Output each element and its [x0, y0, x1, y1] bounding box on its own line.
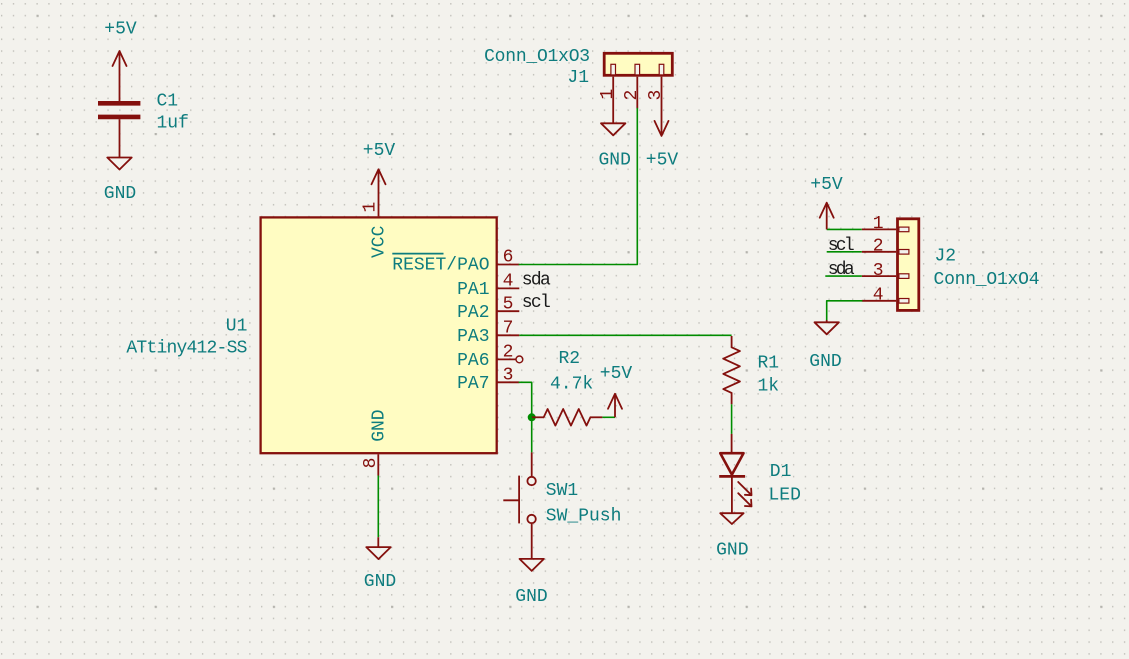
J2 pin 1 line — [862, 228, 896, 230]
pin name VCC — [370, 225, 390, 258]
svg-text:GND: GND — [370, 409, 390, 441]
wire U1 GND — [377, 476, 379, 538]
J1 pin 3 number — [646, 90, 666, 101]
label GND (J1) — [598, 151, 630, 171]
J2 pin 2 number — [873, 237, 884, 257]
svg-text:sda: sda — [828, 260, 855, 280]
svg-text:2: 2 — [503, 343, 514, 363]
ground (C1) — [107, 158, 131, 170]
label +5V (R2) — [600, 364, 633, 384]
J1 pin 1 number — [598, 89, 618, 100]
svg-text:Conn_O1xO3: Conn_O1xO3 — [484, 47, 590, 67]
label J2 — [935, 247, 957, 267]
J2 pin 1 number — [873, 214, 884, 234]
+5V symbol (J2) — [820, 203, 834, 230]
wire R1 to D1 — [731, 404, 733, 434]
svg-text:8: 8 — [361, 458, 381, 469]
connector J2 body — [898, 219, 919, 311]
label GND (D1) — [716, 540, 748, 560]
svg-text:1k: 1k — [758, 376, 780, 396]
value 4.7k — [550, 375, 593, 395]
wire R2 to +5V — [602, 416, 615, 418]
J2 pin 3 number — [873, 261, 884, 281]
svg-text:PA2: PA2 — [457, 303, 489, 323]
pin 7 line — [497, 334, 520, 336]
value LED — [769, 486, 801, 506]
pin name PA1 — [457, 280, 489, 300]
label GND (SW1) — [515, 587, 547, 607]
pin name GND — [370, 409, 390, 441]
J1 pad 2 — [635, 64, 640, 75]
label U1 — [226, 317, 248, 337]
svg-text:GND: GND — [364, 572, 396, 592]
pin 6 number — [503, 248, 514, 268]
wire J2 pin4 GND — [827, 301, 862, 320]
label C1 — [157, 92, 179, 112]
ground (J2) — [815, 320, 839, 334]
label R2 — [559, 349, 581, 369]
svg-text:VCC: VCC — [370, 225, 390, 258]
pin 5 line — [497, 310, 520, 312]
J2 pad 3 — [899, 274, 909, 279]
svg-text:4.7k: 4.7k — [550, 375, 593, 395]
value ATtiny412-SS — [126, 339, 247, 359]
svg-text:scl: scl — [522, 293, 551, 313]
J2 pin 4 line — [862, 300, 896, 302]
value 1k — [758, 376, 780, 396]
svg-text:1uf: 1uf — [157, 114, 189, 134]
label GND (J2) — [809, 352, 841, 372]
pin 3 line — [497, 381, 520, 383]
J1 pin 2 line — [636, 77, 638, 109]
label GND (C1) — [104, 184, 136, 204]
svg-text:7: 7 — [503, 318, 514, 338]
J2 pin 3 line — [862, 275, 896, 277]
connector J1 body — [604, 53, 672, 75]
pin name PA3 — [457, 327, 489, 347]
svg-text:GND: GND — [515, 587, 547, 607]
svg-text:5: 5 — [503, 294, 514, 314]
svg-text:J1: J1 — [567, 68, 589, 88]
pin 6 line — [497, 264, 520, 266]
pin 2 line — [497, 358, 516, 360]
LED D1 — [719, 434, 745, 513]
ground (SW1) — [520, 559, 544, 571]
svg-text:4: 4 — [873, 286, 884, 306]
J1 pin 3 line+5V symbol — [655, 77, 669, 136]
svg-text:sda: sda — [522, 270, 551, 290]
svg-text:6: 6 — [503, 248, 514, 268]
svg-text:Conn_O1xO4: Conn_O1xO4 — [934, 270, 1040, 290]
svg-text:D1: D1 — [770, 462, 792, 482]
svg-text:PA1: PA1 — [457, 280, 489, 300]
pin name PA6 — [457, 351, 489, 371]
svg-text:+5V: +5V — [363, 141, 396, 161]
svg-text:4: 4 — [503, 272, 514, 292]
label R1 — [758, 353, 780, 373]
svg-text:SW1: SW1 — [546, 481, 578, 501]
svg-text:+5V: +5V — [104, 20, 137, 40]
wire PA7 down — [519, 382, 531, 417]
resistor R2 — [532, 409, 603, 426]
svg-text:+5V: +5V — [646, 151, 679, 171]
J2 pad 4 — [899, 299, 909, 304]
pin name RESET/PA0 — [392, 254, 489, 276]
net label scl (J2) — [828, 236, 855, 256]
J1 pad 3 — [659, 64, 664, 75]
J2 pin 4 number — [873, 286, 884, 306]
svg-text:2: 2 — [873, 237, 884, 257]
J2 pin 2 line — [862, 251, 896, 253]
net label scl (U1) — [522, 293, 551, 313]
pin 7 number — [503, 318, 514, 338]
svg-text:PA6: PA6 — [457, 351, 489, 371]
pin 5 number — [503, 294, 514, 314]
wire sda stub — [825, 275, 862, 277]
svg-text:C1: C1 — [157, 92, 179, 112]
label GND (U1) — [364, 572, 396, 592]
wire junction to SW1 — [531, 417, 533, 452]
label Conn_01x03 — [484, 47, 590, 67]
+5V symbol (R2) — [608, 394, 622, 418]
pin 2 number — [503, 343, 514, 363]
svg-text:LED: LED — [769, 486, 801, 506]
pin 4 number — [503, 272, 514, 292]
resistor R1 — [723, 336, 740, 404]
J2 pad 2 — [899, 250, 909, 255]
pin 8 line — [377, 454, 379, 475]
label Conn_01x04 — [934, 270, 1040, 290]
value 1uf — [157, 114, 189, 134]
ground (J1) — [601, 123, 625, 135]
junction — [528, 413, 536, 421]
op U1 body — [261, 217, 497, 453]
svg-text:1: 1 — [361, 202, 381, 213]
J1 pad 1 — [611, 64, 616, 75]
LED arrows — [738, 482, 751, 506]
wire J2 pin1 +5V — [827, 228, 862, 230]
pin name PA2 — [457, 303, 489, 323]
svg-text:GND: GND — [104, 184, 136, 204]
svg-text:R2: R2 — [559, 349, 581, 369]
J2 pad 1 — [899, 227, 909, 232]
pin 3 number — [503, 365, 514, 385]
svg-text:GND: GND — [598, 151, 630, 171]
+5V symbol arrow — [113, 51, 127, 101]
label +5V (J2) — [810, 175, 843, 195]
svg-text:2: 2 — [622, 90, 642, 101]
label D1 — [770, 462, 792, 482]
switch SW1 — [503, 452, 536, 559]
wire PA3 to R1 — [519, 334, 731, 336]
svg-text:3: 3 — [646, 90, 666, 101]
svg-text:1: 1 — [598, 89, 618, 100]
J1 pin 1 line — [612, 77, 614, 124]
svg-text:GND: GND — [809, 352, 841, 372]
svg-text:3: 3 — [873, 261, 884, 281]
capacitor C1 — [98, 103, 140, 157]
net label sda (U1) — [522, 270, 551, 290]
svg-text:U1: U1 — [226, 317, 248, 337]
value SW_Push — [546, 506, 622, 526]
svg-text:R1: R1 — [758, 353, 780, 373]
svg-text:SW_Push: SW_Push — [546, 506, 622, 526]
ground (D1) — [720, 513, 743, 524]
power +5V (VCC) — [363, 141, 396, 161]
+5V symbol (VCC) — [372, 169, 386, 216]
svg-text:J2: J2 — [935, 247, 957, 267]
net label sda (J2) — [828, 260, 855, 280]
J1 pin 2 number — [622, 90, 642, 101]
svg-text:PA3: PA3 — [457, 327, 489, 347]
label J1 — [567, 68, 589, 88]
svg-text:+5V: +5V — [600, 364, 633, 384]
power +5V (C1) — [104, 20, 137, 40]
pin 8 number — [361, 458, 381, 469]
wire scl stub — [827, 251, 862, 253]
pin 2 open end — [516, 356, 523, 363]
label SW1 — [546, 481, 578, 501]
label +5V (J1) — [646, 151, 679, 171]
svg-text:GND: GND — [716, 540, 748, 560]
wire RESET net — [519, 109, 637, 265]
pin 1 number — [361, 202, 381, 213]
ground (U1) — [366, 537, 390, 559]
pin 4 line — [497, 287, 520, 289]
svg-text:PA7: PA7 — [457, 374, 489, 394]
svg-text:3: 3 — [503, 365, 514, 385]
pin name PA7 — [457, 374, 489, 394]
svg-text:ATtiny412-SS: ATtiny412-SS — [126, 339, 247, 359]
svg-text:+5V: +5V — [810, 175, 843, 195]
svg-text:RESET/PAO: RESET/PAO — [392, 256, 489, 276]
svg-text:1: 1 — [873, 214, 884, 234]
svg-text:scl: scl — [828, 236, 855, 256]
